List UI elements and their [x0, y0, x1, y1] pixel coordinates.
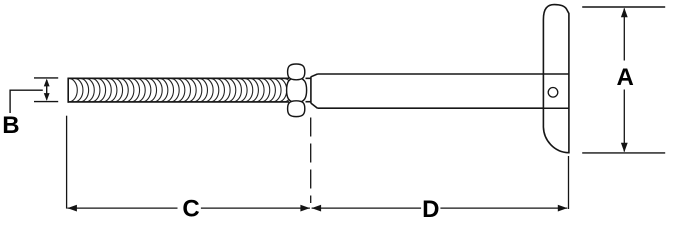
connector bottom: [306, 101, 311, 103]
dimension A line: [621, 8, 628, 152]
ferrule nut top facet: [288, 64, 305, 80]
ferrule nut middle facet: [287, 78, 307, 103]
shaft bottom edge: [318, 107, 544, 109]
shaft left cap: [310, 77, 312, 104]
rod bottom edge: [68, 101, 289, 103]
dimension B extension line bottom: [34, 101, 58, 103]
dimension C line: [67, 205, 310, 212]
dimension D line: [312, 205, 568, 212]
shaft top edge through handle: [543, 73, 569, 75]
handle hole: [548, 88, 558, 98]
dimension A bottom extension line: [582, 152, 665, 154]
shaft tube: [306, 74, 544, 108]
dimension A top extension line: [582, 6, 665, 8]
dimension D right extension line: [568, 156, 570, 209]
chamfer top: [311, 74, 318, 77]
chamfer bottom: [311, 103, 318, 108]
dimension B extension line top: [34, 77, 58, 79]
dimension C/D dashed extension line: [310, 118, 312, 204]
dimension B leader: [10, 90, 43, 113]
T-handle body: [543, 5, 569, 153]
dimension C left extension line: [66, 116, 68, 209]
svg-text:C: C: [182, 196, 199, 223]
svg-text:B: B: [2, 112, 19, 139]
coil rod (threaded flexible shaft): [60, 78, 292, 103]
connector top: [306, 77, 311, 79]
svg-text:D: D: [422, 196, 439, 223]
rod left end: [67, 78, 69, 103]
dimension B arrow: [44, 79, 50, 101]
svg-text:A: A: [617, 64, 634, 91]
shaft top edge: [318, 73, 544, 75]
shaft bottom edge through handle: [543, 107, 569, 109]
rod top edge: [68, 77, 289, 79]
ferrule nut bottom facet: [288, 101, 305, 117]
